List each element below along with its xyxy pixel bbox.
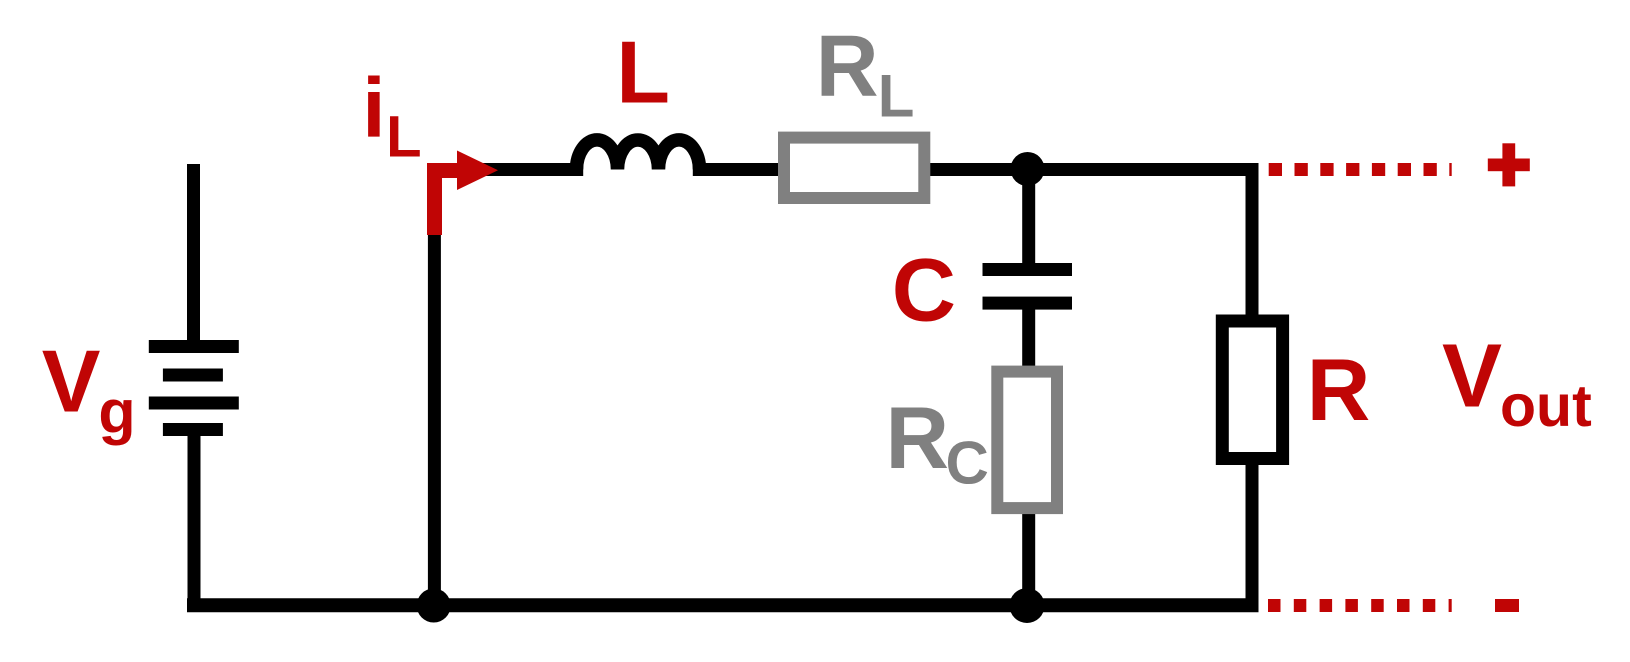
svg-text:i: i	[362, 61, 385, 155]
svg-text:C: C	[946, 429, 989, 496]
svg-text:g: g	[98, 377, 135, 445]
svg-text:R: R	[1307, 340, 1371, 439]
svg-text:V: V	[42, 332, 101, 431]
svg-text:L: L	[878, 63, 915, 130]
svg-text:V: V	[1442, 327, 1502, 427]
svg-text:R: R	[816, 18, 879, 115]
svg-text:out: out	[1500, 373, 1592, 439]
svg-text:C: C	[892, 239, 956, 339]
svg-text:R: R	[886, 388, 950, 487]
svg-text:L: L	[386, 105, 421, 170]
svg-text:L: L	[616, 23, 670, 122]
